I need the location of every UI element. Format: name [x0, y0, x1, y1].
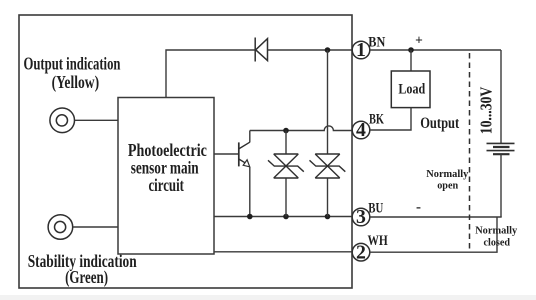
svg-text:Normally: Normally: [426, 169, 469, 180]
wire: load bottom to terminal 4: [370, 108, 411, 130]
wire: right rail + down to battery: [500, 50, 502, 143]
zener Z1 vertical leads: [285, 131, 287, 155]
svg-text:Load: Load: [398, 82, 425, 98]
svg-text:(Green): (Green): [65, 267, 108, 287]
LED indicator (green): [48, 215, 73, 240]
svg-text:(Yellow): (Yellow): [52, 72, 100, 92]
junction: top rail / zener Z1: [283, 128, 289, 134]
wire: WH from box to terminal 2: [214, 251, 352, 253]
svg-text:4: 4: [356, 119, 366, 141]
battery B1: [487, 143, 515, 154]
svg-text:Normally: Normally: [475, 225, 518, 236]
svg-text:-: -: [416, 200, 421, 216]
load box: [391, 71, 430, 108]
svg-text:WH: WH: [368, 233, 389, 249]
svg-text:10...30V: 10...30V: [477, 87, 496, 135]
zener Z2 vertical leads: [327, 50, 329, 154]
wire: diode to terminal 1: [268, 49, 353, 51]
svg-text:circuit: circuit: [148, 175, 184, 195]
svg-text:Output indication: Output indication: [24, 54, 121, 74]
transistor Q1 (NPN): [238, 142, 240, 166]
zener Z2 (bidirectional): [310, 154, 346, 178]
wire: collector up to top rail: [249, 131, 251, 143]
junction: BN wire / zener rail: [325, 47, 331, 53]
wire: terminal 3 to right rail: [370, 216, 502, 218]
junction: bottom rail / zener Z2: [325, 214, 331, 220]
terminal 4 (BK): [352, 121, 370, 139]
wire: yellow LED to main circuit box: [75, 119, 118, 121]
zener Z1 (bidirectional): [268, 154, 304, 178]
wire: terminal 1 to + rail: [370, 49, 501, 51]
svg-text:BU: BU: [368, 201, 383, 217]
terminal 2 (WH): [352, 243, 370, 261]
scan artifact band at bottom: [0, 295, 536, 300]
sensor enclosure outline: [19, 15, 352, 288]
wire: green LED to main circuit box: [73, 226, 118, 228]
junction: bottom rail / emitter: [247, 214, 253, 220]
wire: battery bottom down to BU rail: [500, 154, 502, 217]
LED indicator (yellow): [50, 108, 75, 133]
terminal 3 (BU): [352, 208, 370, 226]
wire: box top up and right to diode: [166, 50, 255, 98]
svg-text:open: open: [437, 180, 458, 191]
svg-text:Output: Output: [420, 115, 460, 132]
diode D1 (cathode bar left, pointing left): [254, 38, 256, 62]
svg-text:BN: BN: [368, 34, 385, 50]
wire: base from box to transistor: [214, 153, 239, 155]
svg-text:3: 3: [356, 206, 366, 228]
svg-text:1: 1: [356, 39, 366, 61]
wire: terminal 2 right then up to BU rail: [370, 217, 497, 252]
svg-text:+: +: [415, 33, 423, 48]
junction: load tap: [408, 47, 414, 53]
svg-text:BK: BK: [369, 112, 385, 128]
svg-text:2: 2: [356, 241, 366, 263]
dashed contact line: [469, 53, 471, 250]
photoelectric sensor main circuit box: [118, 98, 214, 255]
wire: emitter down to bottom rail: [249, 167, 251, 217]
junction: bottom rail / zener Z1: [283, 214, 289, 220]
wire: junction down to load: [410, 50, 412, 71]
wire: top rail from collector to terminal 4 with hop: [250, 126, 352, 131]
svg-text:closed: closed: [484, 237, 511, 248]
wire: bottom rail from box to terminal 3: [214, 216, 352, 218]
terminal 1 (BN): [352, 41, 370, 59]
